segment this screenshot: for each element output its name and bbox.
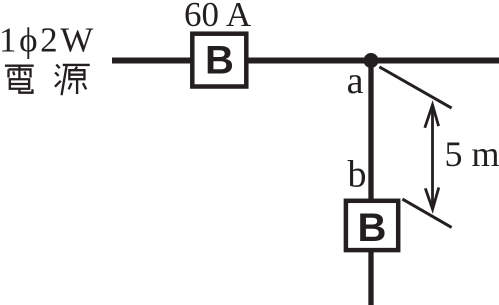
breaker B2 box <box>346 201 398 250</box>
svg-text:B: B <box>205 39 234 83</box>
dimension arrow shaft 5 m <box>431 106 434 209</box>
kanji 源 (gen) drawn strokes <box>55 65 90 96</box>
svg-text:B: B <box>358 206 387 250</box>
dimension arrowhead up <box>425 105 439 128</box>
dimension arrowhead down <box>425 188 439 210</box>
dimension tick lower (from B2 corner) <box>402 199 451 227</box>
svg-text:1ϕ2W: 1ϕ2W <box>0 21 96 60</box>
svg-text:60 A: 60 A <box>184 0 252 34</box>
breaker B1 box <box>192 34 246 87</box>
svg-text:b: b <box>348 154 367 196</box>
wire: vertical branch from node a to breaker B2 <box>368 61 373 202</box>
wire: horizontal feeder from B1 to right edge <box>245 58 499 64</box>
svg-text:5 m: 5 m <box>445 134 499 174</box>
kanji 電 (den) drawn strokes <box>5 66 34 93</box>
svg-text:a: a <box>347 60 364 102</box>
dimension tick upper (from node a) <box>379 67 451 108</box>
wire: horizontal feeder from source to breaker B1 <box>112 58 194 64</box>
node a junction dot <box>364 53 379 68</box>
wire: vertical branch below breaker B2 <box>368 250 373 305</box>
